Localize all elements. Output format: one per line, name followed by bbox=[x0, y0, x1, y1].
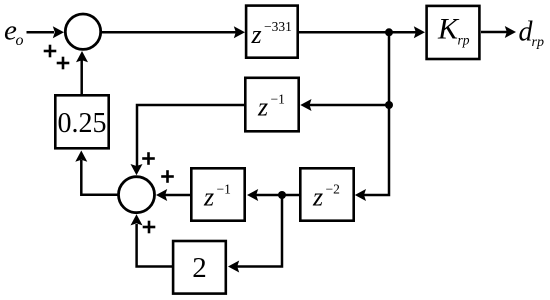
svg-text:−2: −2 bbox=[326, 182, 340, 197]
wire z^-2 output to z^-1 row3 with junction bbox=[247, 189, 299, 201]
svg-text:z: z bbox=[312, 183, 323, 212]
node e_o bbox=[4, 15, 24, 49]
wire z^-331 to K_rp with junction bbox=[299, 26, 425, 38]
plus sign (S2 top input) bbox=[142, 152, 155, 165]
wire K_rp to d_rp output bbox=[481, 26, 516, 38]
block z^-331 bbox=[246, 6, 298, 58]
svg-text:z: z bbox=[257, 93, 268, 122]
block z^-2 bbox=[300, 168, 353, 220]
wire node A down to node B bbox=[388, 32, 391, 105]
wire S2 output to block 0.25 bbox=[75, 151, 118, 195]
wire z^-1 row2 output to summing junction S2 bbox=[131, 105, 245, 175]
svg-text:−1: −1 bbox=[271, 92, 285, 107]
block 0.25 bbox=[55, 95, 108, 148]
wire node B to z^-1 (row 2) bbox=[300, 99, 389, 111]
plus sign (S1 left input) bbox=[44, 45, 57, 58]
plus sign (S2 bottom input) bbox=[143, 221, 156, 234]
wire block 2 output to S2 bottom bbox=[131, 214, 173, 266]
svg-text:o: o bbox=[16, 32, 24, 49]
svg-text:rp: rp bbox=[532, 35, 544, 50]
junction node B bbox=[385, 101, 393, 109]
block z^-1 row2 bbox=[245, 78, 298, 132]
block 2 bbox=[173, 241, 226, 294]
block z^-1 row3 bbox=[191, 168, 244, 220]
junction node C bbox=[278, 191, 286, 199]
wire e_o to summing junction S1 bbox=[27, 26, 65, 38]
node d_rp bbox=[519, 17, 544, 50]
summing junction S1 bbox=[65, 14, 100, 49]
wire z^-1 row3 output to S2 bbox=[156, 189, 190, 201]
wire S1 to block z^-331 bbox=[101, 26, 245, 38]
svg-text:rp: rp bbox=[458, 32, 470, 47]
block K_rp bbox=[427, 6, 480, 59]
svg-text:−1: −1 bbox=[217, 182, 231, 197]
plus sign (S2 right input) bbox=[161, 170, 174, 183]
junction node A (after z^-331) bbox=[385, 28, 393, 36]
svg-text:z: z bbox=[203, 183, 214, 212]
wire 0.25 output to S1 bottom bbox=[76, 51, 88, 94]
wire node B down and into z^-2 bbox=[355, 105, 389, 201]
svg-text:0.25: 0.25 bbox=[58, 108, 107, 139]
svg-text:−331: −331 bbox=[264, 19, 292, 34]
svg-text:z: z bbox=[251, 20, 262, 49]
wire node C down into block 2 bbox=[228, 195, 282, 273]
plus sign (S1 bottom input) bbox=[57, 57, 70, 70]
summing junction S2 bbox=[119, 177, 155, 213]
svg-text:2: 2 bbox=[192, 252, 207, 284]
